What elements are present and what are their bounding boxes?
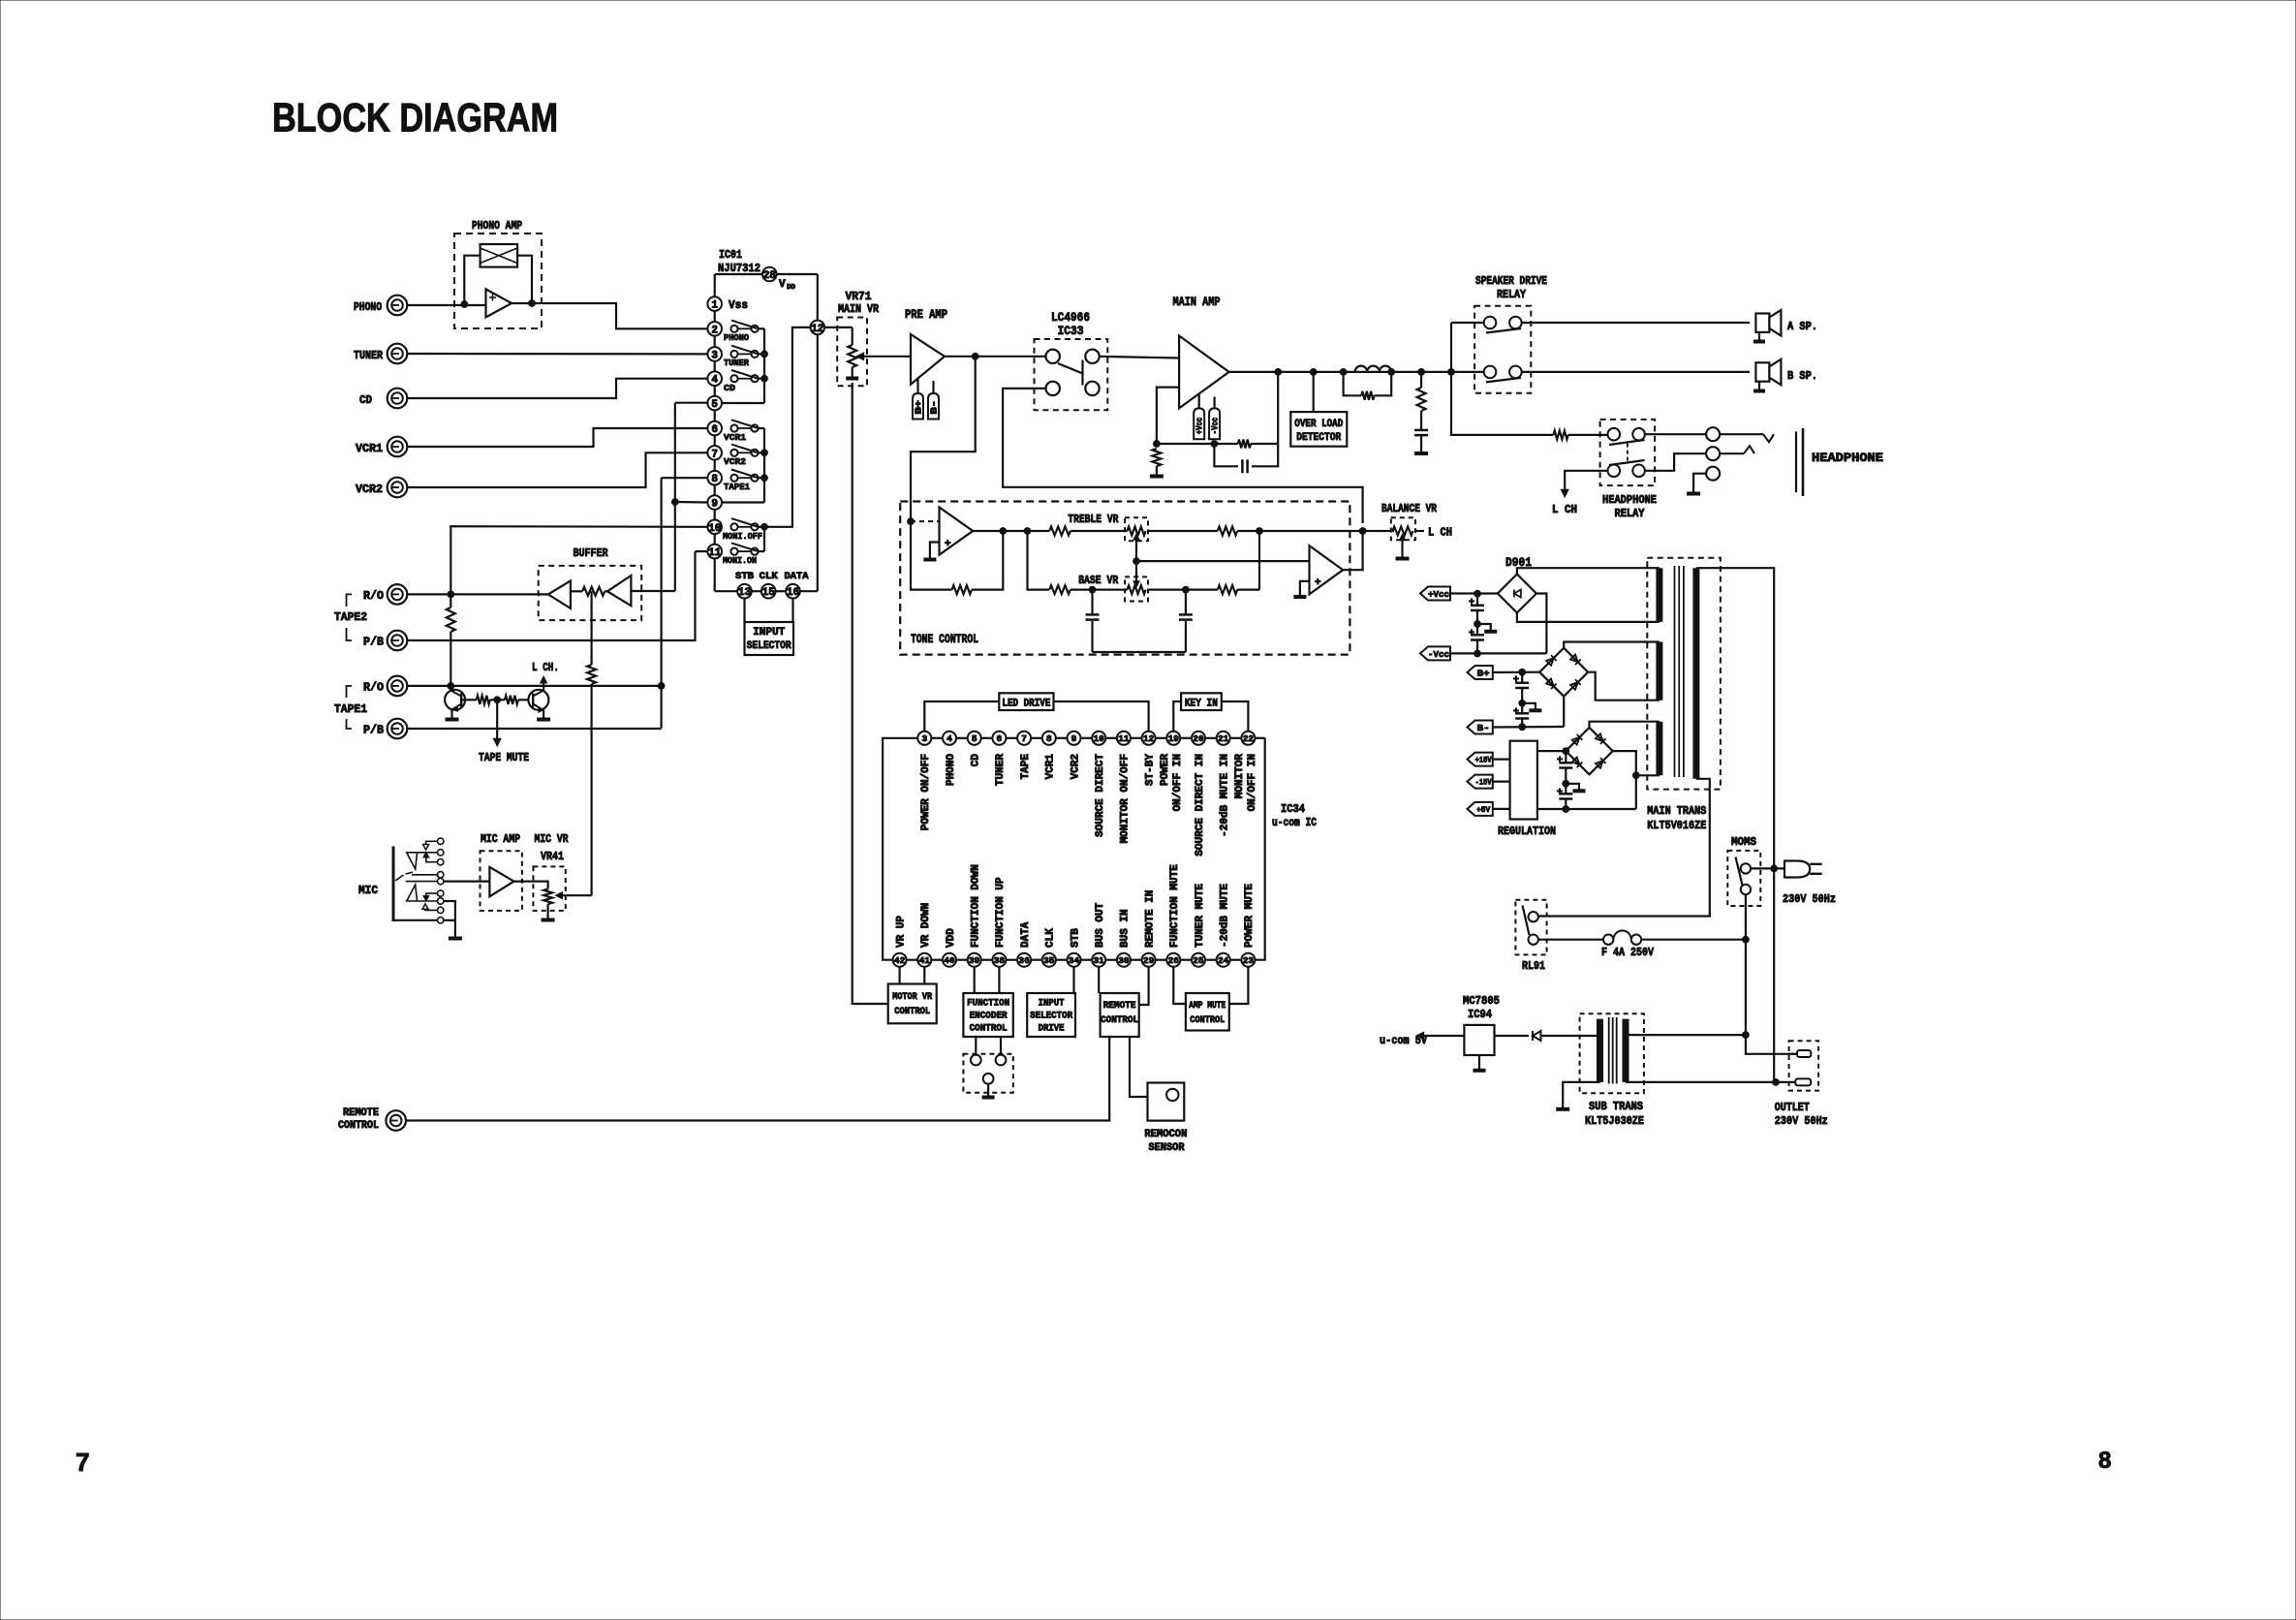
tone op-amp 1 ground [930, 543, 940, 559]
svg-text:VR DOWN: VR DOWN [920, 903, 932, 948]
IC34 pin 29 [1131, 959, 1142, 961]
headphone feed wire [1451, 372, 1553, 435]
wire remote box to remocon sensor [1130, 1037, 1148, 1097]
IC34 pin 7 [1006, 737, 1017, 739]
tape mute resistor 2 [505, 696, 518, 704]
svg-text:R/O: R/O [363, 680, 384, 694]
main amp feedback drop [1277, 372, 1279, 444]
buffer to MIC VR riser [590, 591, 592, 665]
svg-text:CLK: CLK [1045, 928, 1057, 948]
connector PHONO [388, 296, 408, 316]
svg-text:SUB TRANS: SUB TRANS [1589, 1100, 1643, 1113]
svg-text:STB: STB [1070, 928, 1081, 948]
svg-text:IC34: IC34 [1281, 803, 1305, 816]
preamp supply stems [916, 378, 918, 393]
transistor Q1 ground [446, 718, 459, 722]
svg-text:TUNER: TUNER [354, 349, 384, 362]
wire B- to bridge 2 bottom [1493, 726, 1564, 729]
pre amp triangle [911, 334, 945, 385]
B filter midpoint ground [1522, 703, 1536, 709]
wire RL91 lower to fuse [1538, 939, 1603, 941]
IC34 pin 34 [1056, 959, 1068, 961]
IC01 pin bus 4-5 [714, 386, 716, 396]
svg-text:L CH.: L CH. [532, 661, 559, 674]
MIC jack contact 9 hook [422, 904, 428, 910]
jack sleeve ground [1693, 474, 1706, 492]
svg-text:F 4A 250V: F 4A 250V [1601, 946, 1655, 959]
VR71 ground [852, 367, 853, 377]
svg-text:10: 10 [1093, 733, 1104, 744]
svg-text:13: 13 [738, 587, 752, 599]
wire LC4966 bypass to tone output [1003, 389, 1363, 523]
jack tip contact circle [1706, 427, 1720, 441]
wire pin 34 down [1072, 967, 1074, 993]
svg-text:L CH: L CH [1552, 503, 1577, 516]
wire phono feedback right [517, 256, 532, 303]
wire capacitor bridge [1093, 651, 1186, 653]
wire sub trans secondary top [1598, 1035, 1600, 1037]
svg-text:REGULATION: REGULATION [1498, 825, 1556, 838]
speaker relay branch riser [1450, 323, 1452, 372]
main amp flag -Vcc [1209, 408, 1220, 439]
svg-text:V: V [779, 279, 786, 291]
IC01 pin 10 [707, 520, 722, 535]
svg-text:+: + [1315, 577, 1321, 589]
svg-text:TREBLE VR: TREBLE VR [1068, 513, 1119, 526]
KEY IN wire from pin 19 [1173, 701, 1181, 732]
svg-text:POWER: POWER [1160, 754, 1171, 786]
wire bridge2 right to transformer [1588, 672, 1660, 701]
svg-text:MOMS: MOMS [1731, 835, 1756, 849]
MAIN TRANS dashed box [1647, 558, 1721, 790]
svg-text:+Vcc: +Vcc [1428, 589, 1449, 600]
svg-text:11: 11 [708, 547, 722, 559]
bridge rectifier 3 [1566, 728, 1612, 774]
wire pin 41 down [923, 967, 925, 984]
VR71 potentiometer [852, 327, 853, 345]
wire MOMS lower to fuse junction [1745, 894, 1747, 1035]
INPUT SELECTOR box [745, 622, 794, 655]
connector VCR2 [388, 478, 408, 498]
wire main trans primary bottom to RL91 [1539, 779, 1710, 917]
svg-text:24: 24 [1218, 955, 1229, 966]
IC34 pin 19 [1156, 737, 1167, 739]
flag B+ [1468, 666, 1493, 679]
IC01 pin bus 11-13 [714, 558, 716, 591]
MIC jack tip spring upper [407, 854, 418, 870]
diode D94 [1533, 1031, 1541, 1041]
wire phono input [407, 304, 485, 306]
base VR dashed box [1125, 576, 1148, 601]
svg-text:CONTROL: CONTROL [1101, 1014, 1138, 1026]
svg-text:41: 41 [919, 955, 931, 966]
svg-text:HEADPHONE: HEADPHONE [1602, 493, 1657, 507]
wire 16 to riser corner [800, 590, 818, 592]
main trans core lines [1674, 566, 1676, 777]
IC01 switch bus pins 2-5 [763, 328, 765, 403]
wire sub trans secondary bottom to ground [1563, 1082, 1599, 1107]
wire balance to L CH [1415, 530, 1424, 532]
LED DRIVE wire to pin 12 [1054, 701, 1149, 732]
svg-text:MIC: MIC [358, 884, 378, 897]
wire regulation to bridge 3 [1537, 750, 1566, 752]
svg-text:DATA: DATA [1020, 921, 1032, 948]
wire pin 9 to switch bus [722, 501, 764, 503]
IC01 pin 7 switch [730, 450, 737, 456]
svg-text:TAPE: TAPE [1020, 754, 1032, 780]
wire pin 16 to input selector [791, 599, 793, 623]
OVER LOAD DETECTOR wire [1313, 372, 1315, 412]
svg-text:INPUT: INPUT [753, 627, 785, 639]
svg-text:Vss: Vss [729, 299, 748, 312]
MIC AMP dashed box [481, 851, 522, 911]
svg-text:LC4966: LC4966 [1051, 310, 1090, 325]
svg-text:MONI.ON: MONI.ON [723, 555, 757, 566]
IC01 pin 8 [707, 471, 722, 485]
svg-text:POWER ON/OFF: POWER ON/OFF [920, 754, 932, 830]
svg-text:OVER LOAD: OVER LOAD [1294, 419, 1343, 430]
wire pin 11 to V3 riser [696, 550, 707, 552]
wire MIC to amp [444, 880, 490, 882]
MIC jack contact 3 signal line [406, 881, 438, 883]
OUTLET dashed box [1789, 1041, 1819, 1090]
wire mains right down to outlet [1773, 869, 1775, 1082]
svg-text:BALANCE VR: BALANCE VR [1381, 502, 1438, 515]
svg-text:MAIN AMP: MAIN AMP [1173, 295, 1221, 309]
svg-text:36: 36 [1018, 955, 1030, 966]
svg-text:BUFFER: BUFFER [574, 546, 609, 560]
encoder contact A [971, 1055, 981, 1066]
svg-text:CONTROL: CONTROL [1190, 1014, 1225, 1026]
wire to B speaker [1522, 371, 1750, 373]
svg-text:TUNER MUTE: TUNER MUTE [1195, 884, 1206, 948]
svg-text:REMOTE: REMOTE [1103, 1000, 1136, 1012]
tone op-amp 1 [940, 508, 974, 555]
svg-text:MIC VR: MIC VR [535, 832, 570, 846]
IC01 pin 13 STB [737, 584, 752, 599]
svg-text:DETECTOR: DETECTOR [1296, 432, 1341, 444]
speaker relay top contacts [1484, 317, 1497, 329]
IC34 pin 20 [1180, 737, 1192, 739]
encoder wires [975, 1037, 977, 1055]
IC34 pin 11 [1105, 737, 1117, 739]
tape mute resistor 1 [477, 696, 490, 704]
svg-text:+: + [1513, 707, 1519, 718]
svg-text:PHONO: PHONO [354, 300, 382, 314]
svg-text:-20dB MUTE IN: -20dB MUTE IN [1220, 754, 1231, 837]
jack sleeve contact circle [1706, 467, 1720, 481]
OVER LOAD DETECTOR box [1290, 412, 1347, 447]
svg-text:7: 7 [76, 1448, 89, 1477]
IC01 pin 9 [707, 495, 722, 510]
LC4966 switch arm [1058, 363, 1083, 374]
wire V3 riser to TAPE2 P/B [407, 551, 695, 640]
IC01 pin bus 3-4 [714, 361, 716, 372]
IC34 pin 4 [931, 737, 943, 739]
svg-text:RL91: RL91 [1522, 959, 1545, 973]
TAPE2 R/O resistor chain [450, 594, 451, 607]
wire V1 riser pin8-TAPE1 [660, 478, 662, 728]
IC01 pin 7 [707, 446, 722, 460]
function encoder dashed box [963, 1054, 1012, 1093]
wire pin 29 down [1139, 967, 1149, 1005]
svg-text:VCR1: VCR1 [1045, 754, 1057, 780]
svg-text:31: 31 [1093, 955, 1104, 966]
jack ring contact circle [1706, 447, 1720, 460]
svg-text:IC01: IC01 [719, 248, 742, 262]
15V filter capacitor 2 [1565, 784, 1567, 794]
svg-text:+: + [1469, 629, 1474, 639]
svg-text:230V 50Hz: 230V 50Hz [1775, 1114, 1828, 1128]
MIC jack switch [395, 875, 404, 881]
tone treble series resistor [1049, 527, 1070, 536]
headphone relay top contacts [1608, 428, 1621, 441]
svg-text:22: 22 [1243, 733, 1255, 744]
svg-text:IC94: IC94 [1468, 1008, 1492, 1021]
IC34 pin 38 [981, 959, 993, 961]
wire pin 39 down [974, 967, 976, 993]
wire TAPE2 R/O line [407, 593, 548, 595]
base output resistor [1148, 588, 1218, 590]
tone op-amp 2 [1310, 545, 1344, 594]
wire B+ to bridge 2 [1493, 671, 1539, 673]
zobel ground [1414, 452, 1428, 455]
REMOCON SENSOR box [1148, 1083, 1185, 1121]
wire preamp output [945, 356, 1046, 358]
svg-text:REMOCON: REMOCON [1144, 1129, 1187, 1140]
IC01 pin 5 [707, 396, 722, 411]
svg-text:RELAY: RELAY [1615, 507, 1646, 520]
svg-text:FUNCTION DOWN: FUNCTION DOWN [971, 864, 982, 948]
wire MOMS to plug [1751, 867, 1784, 869]
IC01 pin 15 CLK [761, 584, 776, 599]
svg-text:6: 6 [997, 733, 1003, 744]
encoder common contact [983, 1074, 994, 1084]
svg-text:VCR1: VCR1 [356, 442, 383, 455]
svg-text:+: + [1557, 788, 1563, 798]
main trans secondary winding 2 [1656, 642, 1662, 701]
Vcc filter midpoint ground [1477, 624, 1491, 630]
svg-text:STB: STB [735, 572, 754, 582]
sub trans secondary winding [1597, 1019, 1603, 1082]
wire TAPE1 P/B line [407, 728, 661, 730]
svg-text:R/O: R/O [363, 589, 384, 603]
wire diode to sub trans [1541, 1035, 1600, 1037]
IC34 pin 26 [1156, 959, 1167, 961]
IC34 pin 24 [1205, 959, 1217, 961]
svg-text:8: 8 [1046, 733, 1052, 744]
svg-text:B+: B+ [914, 400, 923, 415]
svg-text:DATA: DATA [785, 572, 809, 582]
tone op-amp 1 output wire [973, 530, 1049, 532]
IC01 pin 6 [707, 421, 722, 436]
wire 13-15 [752, 590, 761, 592]
wire phono feedback left [464, 256, 480, 303]
svg-text:KLT5V016ZE: KLT5V016ZE [1647, 819, 1706, 832]
sub trans primary winding [1623, 1019, 1629, 1082]
balance VR wiper to ground [1401, 536, 1403, 557]
wire LC4966 output to main amp [1100, 357, 1179, 358]
flag +15V [1468, 753, 1493, 766]
svg-text:KEY IN: KEY IN [1185, 698, 1218, 709]
wire CD to pin 4 [407, 379, 706, 398]
LED DRIVE wire from pin 3 [924, 701, 999, 732]
transistor Q2 ground [537, 718, 550, 722]
wire +Vcc to bridge [1450, 592, 1498, 594]
svg-text:RELAY: RELAY [1497, 288, 1527, 301]
svg-text:VR41: VR41 [541, 850, 564, 863]
main trans secondary winding 1 [1656, 568, 1662, 622]
svg-text:4: 4 [946, 733, 952, 744]
svg-text:PHONO: PHONO [724, 332, 749, 343]
svg-text:B SP.: B SP. [1787, 369, 1817, 383]
wire moni bus to pin 12 riser [764, 327, 811, 527]
svg-text:-Vcc: -Vcc [1211, 418, 1221, 435]
svg-text:B+: B+ [1477, 668, 1490, 678]
IC01 pin 8 switch [730, 475, 737, 482]
svg-text:SPEAKER DRIVE: SPEAKER DRIVE [1475, 274, 1547, 288]
flag -Vcc supply [1420, 646, 1450, 660]
IC01 pin 12 riser [817, 334, 819, 591]
IC01 pin 6 switch [730, 424, 737, 431]
svg-text:FUNCTION MUTE: FUNCTION MUTE [1169, 864, 1181, 948]
sub trans core lines [1608, 1017, 1610, 1084]
svg-text:+Vcc: +Vcc [1195, 418, 1205, 435]
svg-text:LED DRIVE: LED DRIVE [1002, 698, 1050, 709]
wire bridge3 right down [1613, 751, 1636, 809]
wire relay to jack tip [1645, 433, 1706, 435]
svg-text:FUNCTION: FUNCTION [967, 998, 1009, 1010]
MOTOR VR CONTROL box [888, 984, 937, 1024]
TONE CONTROL dashed box [900, 502, 1350, 655]
svg-text:CONTROL: CONTROL [970, 1023, 1008, 1035]
svg-text:MONITOR ON/OFF: MONITOR ON/OFF [1120, 754, 1132, 843]
HEADPHONE RELAY dashed box [1600, 420, 1656, 485]
svg-text:BUS OUT: BUS OUT [1095, 902, 1106, 948]
IC01 pin 12 [811, 321, 825, 335]
svg-text:5: 5 [972, 733, 977, 744]
MIC VR dashed box [533, 866, 565, 911]
svg-text:2: 2 [711, 325, 718, 336]
tone feedback resistor [972, 531, 1003, 590]
IC01 pin 11 [707, 545, 722, 559]
Vcc filter capacitor 1 [1476, 594, 1478, 605]
wire fuse to MOMS junction [1641, 939, 1746, 941]
base VR potentiometer [1128, 585, 1146, 594]
speaker relay bottom contacts [1484, 366, 1497, 379]
main amp triangle [1179, 336, 1229, 409]
svg-text:TAPE1: TAPE1 [724, 482, 750, 492]
MIC jack contact 7 hook [426, 893, 438, 895]
LED DRIVE box [999, 693, 1053, 710]
treble VR wiper [1135, 537, 1137, 561]
LC4966 contact top-left [1046, 350, 1060, 363]
VR71 wiper arrow [861, 356, 911, 358]
connector CD [388, 389, 408, 409]
wire main trans primary top to mains [1696, 568, 1774, 869]
flag +5V [1468, 802, 1493, 816]
main trans primary winding [1692, 568, 1699, 779]
svg-text:P/B: P/B [363, 724, 384, 737]
svg-text:VR UP: VR UP [895, 916, 907, 948]
wire MC7805 to diode [1495, 1035, 1530, 1037]
TAPE MUTE arrow [496, 700, 498, 741]
svg-text:BLOCK DIAGRAM: BLOCK DIAGRAM [272, 95, 558, 140]
svg-text:MONI.OFF: MONI.OFF [723, 531, 762, 542]
main amp feedback capacitor branch [1214, 444, 1238, 466]
IC34 pin 21 [1205, 737, 1217, 739]
svg-text:REMOTE: REMOTE [343, 1107, 379, 1119]
KEY IN box [1181, 693, 1222, 710]
main amp input resistor to ground [1152, 449, 1161, 466]
svg-text:39: 39 [969, 955, 980, 966]
wire sub trans primary bottom to outlet [1626, 1081, 1795, 1083]
tone op-amp 2 ground [1300, 581, 1310, 596]
RL91 dashed box [1515, 900, 1546, 955]
speaker relay dashed box [1474, 306, 1531, 393]
IC01 pin 10 switch [730, 523, 737, 530]
svg-text:25: 25 [1193, 955, 1204, 966]
wire bridge AC top to transformer [1517, 568, 1660, 574]
svg-text:6: 6 [711, 424, 718, 436]
svg-text:38: 38 [994, 955, 1006, 966]
wire transformer third bottom [1636, 774, 1660, 776]
svg-text:19: 19 [1168, 733, 1180, 744]
svg-text:BASE VR: BASE VR [1078, 574, 1119, 587]
wire main amp output [1229, 371, 1484, 373]
headphone relay link [1627, 444, 1629, 464]
SUB TRANS dashed box [1580, 1013, 1644, 1093]
phono amp dashed box [454, 234, 542, 328]
B filter capacitor 1 [1521, 672, 1523, 682]
wire pin 5 to V2 riser [675, 402, 707, 404]
MOMS switch contacts [1741, 863, 1751, 873]
svg-text:MAIN VR: MAIN VR [838, 302, 880, 316]
svg-text:KLT5J030ZE: KLT5J030ZE [1585, 1114, 1644, 1128]
svg-text:HEADPHONE: HEADPHONE [1812, 451, 1883, 465]
IC01 pin 4 switch [730, 375, 737, 382]
svg-text:DD: DD [787, 284, 796, 292]
MIC jack ring spring lower [407, 885, 418, 901]
IC01 pin bus 8-9 [714, 485, 716, 496]
svg-text:-Vcc: -Vcc [1428, 649, 1449, 660]
svg-text:15: 15 [762, 587, 776, 599]
svg-text:34: 34 [1069, 955, 1080, 966]
treble output resistor [1148, 530, 1218, 532]
TAPE2 P/B connector [388, 631, 408, 651]
MIC jack contact 2 line [412, 874, 438, 876]
svg-text:VCR2: VCR2 [356, 483, 383, 496]
svg-text:VR71: VR71 [846, 290, 872, 303]
MIC VR potentiometer [543, 889, 552, 905]
main amp flag +Vcc [1194, 408, 1204, 439]
svg-text:CONTROL: CONTROL [894, 1006, 930, 1017]
wire pin 31 down [1098, 967, 1100, 993]
svg-text:+: + [1469, 598, 1474, 608]
wire bridge2 AC top to transformer [1564, 642, 1660, 648]
svg-text:SELECTOR: SELECTOR [1030, 1011, 1073, 1022]
VR71 dashed box [837, 318, 867, 387]
tone input junction [908, 518, 915, 525]
svg-text:PRE AMP: PRE AMP [905, 307, 947, 322]
svg-text:ENCODER: ENCODER [970, 1011, 1008, 1022]
svg-text:REMOTE IN: REMOTE IN [1144, 890, 1156, 948]
svg-text:12: 12 [1143, 733, 1155, 744]
svg-text:42: 42 [894, 955, 906, 966]
svg-text:AMP MUTE: AMP MUTE [1189, 1000, 1226, 1012]
svg-text:VCR2: VCR2 [1070, 754, 1081, 779]
IC01 pin 16 DATA [786, 584, 800, 599]
